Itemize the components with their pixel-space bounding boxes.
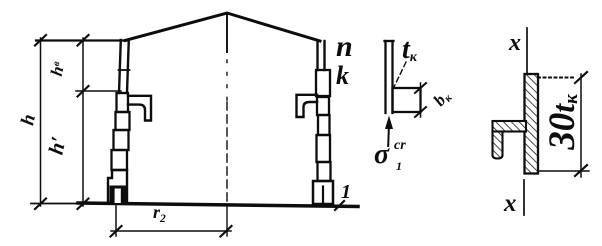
right column segment B3 [317, 135, 331, 162]
right column top strip [316, 41, 318, 70]
left column corbel [128, 96, 151, 121]
left column foot [110, 186, 127, 204]
dimension line h' / h^v [82, 38, 84, 206]
r2 tick left [111, 226, 122, 237]
roof extension line (left) [36, 39, 127, 41]
svg-text:k: k [336, 61, 349, 90]
bottom extension line [31, 203, 80, 205]
left column segment B2 [114, 130, 129, 150]
extension line at corbel level [76, 90, 121, 92]
right column segment B2 [318, 115, 330, 135]
r2 tick right [221, 226, 232, 237]
tick hv bottom [78, 86, 89, 97]
left column segment B1 [116, 112, 130, 130]
right column base inner line [322, 187, 324, 205]
section detail: corbel bar (hatched) [493, 121, 527, 132]
section detail: bottom extension line [538, 170, 589, 172]
middle detail: wall strip [384, 41, 386, 113]
t_k leader line [394, 62, 406, 87]
middle detail: flange box [393, 88, 421, 112]
b_k tick top [415, 83, 426, 93]
svg-text:1: 1 [341, 181, 351, 203]
left column strip joint [119, 69, 130, 71]
svg-text:n: n [336, 30, 353, 63]
section detail: dotted top edge [538, 77, 576, 79]
right column segment B4 [318, 162, 331, 181]
tick h top [35, 35, 46, 46]
right column corbel [297, 95, 318, 117]
svg-text:x: x [503, 190, 517, 217]
left column base block [108, 170, 127, 203]
svg-text:1: 1 [396, 159, 402, 173]
left column segment B3 [112, 150, 128, 170]
tick h' bottom [78, 199, 89, 210]
section detail: x axis top [526, 28, 528, 74]
svg-text:cr: cr [394, 138, 406, 153]
sigma arrow [385, 116, 393, 130]
right column k-box [316, 70, 330, 96]
section detail: x axis bottom [523, 180, 525, 215]
tick h bottom [35, 199, 46, 210]
b_k tick bottom [415, 107, 426, 117]
svg-text:x: x [508, 30, 521, 56]
roof line [125, 13, 320, 41]
left column top strip [119, 40, 121, 93]
30tk dimension line [580, 74, 582, 177]
center line (building axis) [226, 14, 228, 52]
ground line [78, 203, 358, 207]
right column base block [313, 181, 333, 204]
r2 extension line left [115, 206, 117, 236]
tick at section 1 (ground, right column) [335, 201, 344, 210]
left column crane-level box [117, 93, 129, 112]
30tk tick bottom [575, 165, 587, 176]
30tk tick top [575, 72, 587, 83]
section detail: wall (hatched) [525, 74, 539, 174]
tick hv top [78, 35, 89, 46]
right column segment B1 [317, 97, 329, 115]
section detail: corbel leg (hatched) [493, 132, 503, 159]
r2 dimension line [111, 230, 231, 232]
b_k dimension line [420, 83, 422, 117]
dimension line h [40, 38, 42, 206]
svg-text:σ: σ [374, 139, 390, 170]
